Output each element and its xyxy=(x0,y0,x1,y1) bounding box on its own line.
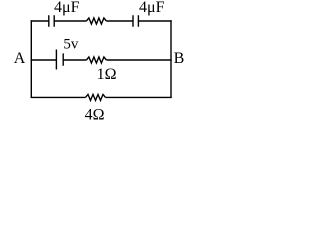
svg-text:5v: 5v xyxy=(63,36,79,52)
svg-text:1Ω: 1Ω xyxy=(97,66,117,83)
svg-text:4μF: 4μF xyxy=(54,0,80,16)
svg-text:A: A xyxy=(14,50,26,67)
svg-text:B: B xyxy=(174,50,185,67)
svg-text:4μF: 4μF xyxy=(139,0,165,16)
svg-text:4Ω: 4Ω xyxy=(85,106,105,123)
